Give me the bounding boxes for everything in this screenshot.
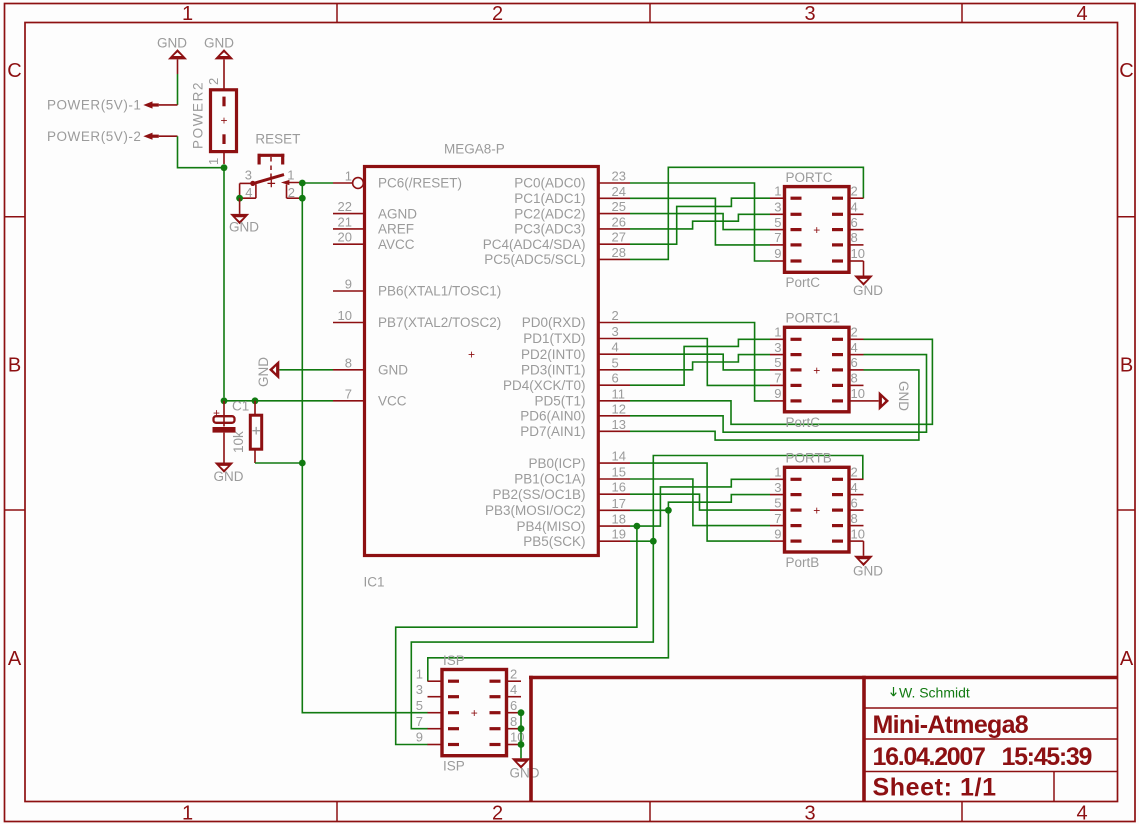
svg-text:10: 10 — [851, 526, 865, 541]
PORTC1 pin 5 — [791, 368, 802, 371]
IC pin 13 PD7(AIN1) — [598, 430, 630, 432]
svg-text:PD3(INT1): PD3(INT1) — [521, 363, 586, 378]
IC pin 6 PD4(XCK/T0) — [598, 384, 630, 386]
svg-text:7: 7 — [774, 371, 781, 386]
svg-text:GND: GND — [896, 381, 911, 411]
PORTB pin 7 — [791, 524, 802, 527]
svg-text:18: 18 — [612, 512, 626, 527]
svg-text:PortC: PortC — [786, 415, 821, 430]
PORTB pin 8 — [832, 524, 843, 527]
pin POWER(5V)-2 — [159, 135, 178, 137]
IC pin 24 PC1(ADC1) — [598, 197, 630, 199]
svg-text:PD0(RXD): PD0(RXD) — [522, 315, 586, 330]
wire POWER2 pin2 to ground — [223, 59, 225, 89]
svg-text:+: + — [813, 503, 820, 517]
wire VCC to IC pin7 — [224, 400, 333, 402]
title block row line 1 — [864, 707, 1118, 709]
svg-text:1: 1 — [416, 666, 423, 681]
switch actuator right leg — [281, 154, 284, 165]
switch plunger dash — [270, 174, 272, 179]
PORTC1 pin 4 — [832, 353, 843, 356]
frame tick right — [1118, 216, 1135, 218]
title block divider — [862, 676, 866, 802]
svg-text:2: 2 — [492, 803, 503, 825]
svg-text:16.04.2007 15:45:39: 16.04.2007 15:45:39 — [873, 743, 1092, 771]
frame tick left — [5, 509, 26, 511]
IC pin 22 AGND — [333, 213, 365, 215]
svg-text:Sheet: 1/1: Sheet: 1/1 — [873, 774, 997, 802]
wire PB2-PORTB5 — [630, 494, 770, 510]
IC pin 8 GND — [333, 369, 365, 371]
wire PB3 stub — [630, 509, 668, 511]
svg-text:IC1: IC1 — [364, 575, 385, 590]
switch contact arrow pin1 — [281, 180, 290, 185]
svg-text:B: B — [1120, 355, 1133, 377]
svg-text:8: 8 — [510, 714, 517, 729]
svg-text:GND: GND — [204, 36, 234, 51]
svg-text:4: 4 — [1076, 803, 1087, 825]
svg-text:3: 3 — [245, 167, 252, 182]
wire PC5-PORTC2 — [630, 167, 863, 259]
connector PORTC1 body — [785, 327, 850, 412]
svg-text:13: 13 — [612, 417, 626, 432]
svg-text:C: C — [1119, 60, 1133, 82]
frame tick right — [1118, 509, 1135, 511]
switch actuator bar — [258, 154, 285, 157]
svg-text:3: 3 — [774, 480, 781, 495]
switch pin 2 lead — [287, 197, 303, 199]
frame tick bottom — [961, 802, 963, 822]
svg-text:2: 2 — [510, 666, 517, 681]
PORTC1 pin 8 — [832, 384, 843, 387]
PORTC pin 4 — [832, 213, 843, 216]
svg-text:9: 9 — [345, 277, 352, 292]
wire PB0-PORTB9 — [630, 463, 770, 541]
IC pin 7 VCC — [333, 400, 365, 402]
frame tick top — [961, 4, 963, 23]
ground symbol above POWER2 — [214, 49, 233, 59]
svg-text:PB2(SS/OC1B): PB2(SS/OC1B) — [492, 487, 585, 502]
ISP pin 8 — [490, 727, 501, 730]
svg-text:3: 3 — [804, 3, 815, 25]
svg-text:6: 6 — [851, 495, 858, 510]
wire PD5-PORTC1.2 — [630, 339, 932, 424]
svg-text:5: 5 — [774, 495, 781, 510]
svg-text:17: 17 — [612, 496, 626, 511]
frame tick bottom — [336, 802, 338, 822]
switch lever — [253, 175, 284, 184]
svg-text:8: 8 — [851, 371, 858, 386]
svg-text:ISP: ISP — [443, 759, 465, 774]
svg-text:PD7(AIN1): PD7(AIN1) — [520, 424, 585, 439]
wire SCK-ISP7 — [411, 541, 653, 729]
IC pin 21 AREF — [333, 228, 365, 230]
ISP pin 4 — [490, 695, 501, 698]
svg-text:14: 14 — [612, 449, 626, 464]
svg-text:POWER2: POWER2 — [191, 81, 206, 149]
svg-text:PC1(ADC1): PC1(ADC1) — [514, 191, 585, 206]
svg-text:W. Schmidt: W. Schmidt — [899, 685, 970, 701]
IC pin 1 PC6(/RESET) — [333, 182, 352, 184]
svg-text:PB0(ICP): PB0(ICP) — [528, 456, 585, 471]
svg-text:PC4(ADC4/SDA): PC4(ADC4/SDA) — [483, 237, 586, 252]
IC pin 5 PD3(INT1) — [598, 369, 630, 371]
title block row line 3 — [864, 771, 1118, 773]
svg-text:26: 26 — [612, 214, 626, 229]
junction MISO — [634, 523, 641, 530]
switch pin 3-4 link — [239, 183, 241, 198]
svg-text:2: 2 — [206, 78, 221, 85]
svg-text:20: 20 — [338, 230, 352, 245]
PORTB pin 4 — [832, 493, 843, 496]
wire reset to IC pin1 — [302, 182, 333, 184]
junction ISP pin10 gnd — [518, 741, 525, 748]
wire PC0-PORTC9 — [630, 183, 770, 261]
IC pin 25 PC2(ADC2) — [598, 213, 630, 215]
wire PB5 stub — [630, 540, 653, 542]
IC pin 2 PD0(RXD) — [598, 322, 630, 324]
IC pin 20 AVCC — [333, 243, 365, 245]
wire PD1-PORTC1.7 — [630, 339, 770, 386]
svg-text:1: 1 — [345, 169, 352, 184]
svg-text:7: 7 — [416, 714, 423, 729]
PORTB pin 6 — [832, 509, 843, 512]
svg-text:4: 4 — [510, 682, 517, 697]
PORTB pin 2 — [832, 478, 843, 481]
svg-text:GND: GND — [229, 220, 259, 235]
svg-text:+: + — [813, 223, 820, 237]
svg-text:9: 9 — [774, 386, 781, 401]
svg-text:MEGA8-P: MEGA8-P — [444, 141, 505, 156]
svg-text:GND: GND — [853, 283, 883, 298]
switch plunger dash — [270, 166, 272, 171]
switch plunger stub — [270, 157, 272, 162]
svg-text:AREF: AREF — [378, 222, 414, 237]
pin POWER2 pin1 — [223, 152, 225, 164]
svg-text:GND: GND — [510, 766, 540, 781]
svg-text:GND: GND — [256, 357, 271, 387]
svg-text:PD5(T1): PD5(T1) — [534, 394, 585, 409]
PORTB pin 1 — [791, 478, 802, 481]
ground symbol at IC pin8 — [269, 360, 279, 379]
svg-text:7: 7 — [774, 511, 781, 526]
IC pin 10 PB7(XTAL2/TOSC2) — [333, 322, 365, 324]
wire PD3-PORTC1.3 — [630, 355, 770, 370]
IC pin 14 PB0(ICP) — [598, 462, 630, 464]
svg-text:7: 7 — [774, 230, 781, 245]
junction SCK — [650, 538, 657, 545]
svg-text:5: 5 — [774, 215, 781, 230]
ground symbol PORTC — [854, 276, 873, 286]
IC U1 MEGA8-P body — [365, 167, 599, 556]
svg-text:8: 8 — [851, 230, 858, 245]
svg-text:PB6(XTAL1/TOSC1): PB6(XTAL1/TOSC1) — [378, 284, 501, 299]
junction ISP pin6 gnd — [518, 709, 525, 716]
PORTC1 pin 2 — [832, 338, 843, 341]
junction ISP pin8 gnd — [518, 725, 525, 732]
svg-text:PD4(XCK/T0): PD4(XCK/T0) — [503, 378, 586, 393]
svg-text:PC5(ADC5/SCL): PC5(ADC5/SCL) — [484, 252, 585, 267]
IC pin 18 PB4(MISO) — [598, 525, 630, 527]
PORTC pin 6 — [832, 228, 843, 231]
ground symbol below C1 — [214, 463, 233, 473]
ground symbol top-left — [168, 49, 187, 59]
PORTC pin 7 — [791, 243, 802, 246]
svg-text:15: 15 — [612, 465, 626, 480]
PORTC1 pin 1 — [791, 338, 802, 341]
ISP pin 9 — [448, 743, 459, 746]
svg-text:10: 10 — [851, 386, 865, 401]
svg-text:PortC: PortC — [786, 275, 821, 290]
wire ISP gnd chain — [520, 713, 522, 759]
svg-text:PB3(MOSI/OC2): PB3(MOSI/OC2) — [485, 503, 586, 518]
connector ISP body — [442, 670, 507, 756]
svg-text:6: 6 — [851, 355, 858, 370]
svg-text:A: A — [1120, 648, 1134, 670]
svg-text:PC2(ADC2): PC2(ADC2) — [514, 206, 585, 221]
svg-text:10: 10 — [851, 246, 865, 261]
switch pin 4 riser — [255, 184, 257, 198]
svg-text:7: 7 — [345, 386, 352, 401]
svg-text:PD2(INT0): PD2(INT0) — [521, 347, 586, 362]
svg-text:AGND: AGND — [378, 206, 417, 221]
wire SCK-PORTB2 — [653, 456, 863, 542]
svg-text:16: 16 — [612, 480, 626, 495]
connector PORTC body — [785, 187, 850, 273]
frame tick top — [336, 4, 338, 23]
svg-text:PB7(XTAL2/TOSC2): PB7(XTAL2/TOSC2) — [378, 315, 501, 330]
PORTC pin 5 — [791, 228, 802, 231]
PORTC pin 9 — [791, 259, 802, 262]
author arrow glyph — [891, 687, 897, 696]
svg-text:21: 21 — [338, 214, 352, 229]
title block cell divider — [1053, 772, 1055, 802]
title block row line 2 — [864, 738, 1118, 740]
svg-text:A: A — [8, 648, 22, 670]
svg-text:1: 1 — [287, 167, 294, 182]
switch actuator left leg — [258, 154, 261, 165]
PORTC pin 1 — [791, 197, 802, 200]
switch origin cross — [268, 180, 276, 188]
frame tick top — [649, 4, 651, 23]
ISP pin 5 — [448, 711, 459, 714]
svg-text:RESET: RESET — [255, 132, 300, 147]
ISP pin 3 — [448, 695, 459, 698]
IC pin 28 PC5(ADC5/SCL) — [598, 258, 630, 260]
svg-text:2: 2 — [851, 325, 858, 340]
svg-text:PortB: PortB — [786, 555, 820, 570]
wire switch pin4 to ground — [239, 198, 241, 214]
svg-text:3: 3 — [416, 682, 423, 697]
svg-text:1: 1 — [182, 3, 193, 25]
wire PC2-PORTC5 — [630, 214, 770, 230]
IC pin 17 PB3(MOSI/OC2) — [598, 509, 630, 511]
ISP pin 1 — [448, 680, 459, 683]
svg-text:1: 1 — [182, 803, 193, 825]
IC pin 15 PB1(OC1A) — [598, 478, 630, 480]
PORTC pin 8 — [832, 243, 843, 246]
svg-text:6: 6 — [612, 371, 619, 386]
wire IC GND pin — [279, 369, 333, 371]
svg-text:12: 12 — [612, 401, 626, 416]
svg-text:+: + — [220, 113, 227, 127]
wire MOSI-PORTB3 — [668, 495, 770, 511]
connector PORTB body — [785, 467, 850, 552]
svg-text:3: 3 — [612, 324, 619, 339]
svg-text:4: 4 — [1076, 3, 1087, 25]
junction switch pin1 / reset net — [299, 180, 306, 187]
svg-text:PORTC1: PORTC1 — [786, 311, 841, 326]
wire PD4-PORTC1.1 — [630, 339, 770, 385]
PORTB pin 5 — [791, 509, 802, 512]
svg-text:PB4(MISO): PB4(MISO) — [516, 519, 585, 534]
svg-text:+: + — [471, 706, 478, 720]
svg-text:1: 1 — [206, 158, 221, 165]
svg-text:+: + — [813, 363, 820, 377]
svg-text:B: B — [8, 355, 21, 377]
C1 bottom lead — [223, 433, 225, 463]
IC pin 16 PB2(SS/OC1B) — [598, 493, 630, 495]
wire R1 to reset net — [255, 462, 302, 464]
wire MISO-ISP9 — [396, 526, 637, 744]
svg-text:3: 3 — [804, 803, 815, 825]
svg-text:28: 28 — [612, 245, 626, 260]
junction switch pin4 / gnd — [236, 195, 243, 202]
PORTC1 pin 9 — [791, 399, 802, 402]
svg-text:1: 1 — [774, 465, 781, 480]
svg-text:6: 6 — [510, 698, 517, 713]
junction R1 / reset net — [299, 460, 306, 467]
wire PORTC1 pin10 to ground — [864, 400, 879, 402]
ISP pin 6 — [490, 711, 501, 714]
svg-text:8: 8 — [851, 511, 858, 526]
svg-text:Mini-Atmega8: Mini-Atmega8 — [873, 711, 1029, 739]
svg-text:22: 22 — [338, 199, 352, 214]
IC pin 11 PD5(T1) — [598, 400, 630, 402]
R1 bottom lead — [254, 449, 256, 463]
svg-text:PB1(OC1A): PB1(OC1A) — [514, 472, 585, 487]
svg-text:PORTB: PORTB — [786, 451, 832, 466]
junction MOSI — [665, 507, 672, 514]
PORTC1 pin 10 — [832, 399, 843, 402]
junction VCC / R1 — [252, 397, 259, 404]
wire PORTC pin10 to ground — [863, 261, 865, 276]
PORTC pin 3 — [791, 213, 802, 216]
switch pin 1 lead — [284, 182, 302, 184]
ground symbol PORTC1 — [879, 391, 889, 410]
svg-text:2: 2 — [612, 308, 619, 323]
svg-text:2: 2 — [492, 3, 503, 25]
svg-text:1: 1 — [774, 325, 781, 340]
svg-text:3: 3 — [774, 340, 781, 355]
wire PB1-PORTB7 — [630, 479, 770, 526]
svg-text:5: 5 — [416, 698, 423, 713]
svg-text:PD6(AIN0): PD6(AIN0) — [520, 409, 585, 424]
svg-text:5: 5 — [774, 355, 781, 370]
svg-text:19: 19 — [612, 527, 626, 542]
svg-text:24: 24 — [612, 184, 626, 199]
PORTB pin 9 — [791, 539, 802, 542]
svg-text:PC6(/RESET): PC6(/RESET) — [378, 176, 462, 191]
junction VCC / C1 — [221, 397, 228, 404]
IC pin 3 PD1(TXD) — [598, 338, 630, 340]
svg-text:11: 11 — [612, 386, 626, 401]
wire PC4-PORTC1 — [630, 198, 770, 244]
ISP pin 7 — [448, 727, 459, 730]
svg-text:GND: GND — [378, 363, 408, 378]
PORTB pin 10 — [832, 539, 843, 542]
IC pin 26 PC3(ADC3) — [598, 228, 630, 230]
PORTC pin 2 — [832, 197, 843, 200]
svg-text:PORTC: PORTC — [786, 170, 833, 185]
svg-text:GND: GND — [157, 36, 187, 51]
svg-text:5: 5 — [612, 355, 619, 370]
svg-text:+: + — [468, 347, 475, 361]
svg-text:VCC: VCC — [378, 394, 407, 409]
wire MOSI-ISP1 — [428, 510, 669, 681]
svg-text:9: 9 — [774, 246, 781, 261]
svg-text:PC0(ADC0): PC0(ADC0) — [514, 176, 585, 191]
wire PD7-PORTC1.6 — [630, 370, 919, 440]
svg-text:PC3(ADC3): PC3(ADC3) — [514, 222, 585, 237]
switch contact pin3 — [250, 181, 255, 186]
svg-text:POWER(5V)-1: POWER(5V)-1 — [47, 98, 142, 113]
PORTC1 pin 6 — [832, 368, 843, 371]
svg-text:2: 2 — [851, 183, 858, 198]
PORTC1 pin 3 — [791, 353, 802, 356]
svg-text:9: 9 — [416, 730, 423, 745]
svg-text:4: 4 — [851, 200, 858, 215]
switch pin 3 lead — [240, 182, 253, 184]
svg-text:C1: C1 — [232, 399, 249, 414]
svg-text:PD1(TXD): PD1(TXD) — [523, 331, 585, 346]
svg-text:C: C — [7, 60, 21, 82]
wire POWER(5V)-2 to POWER2 pin1 — [178, 136, 225, 168]
title block top edge — [529, 676, 1118, 680]
wire POWER(5V)-1 to GND — [177, 74, 179, 105]
wire VCC net vertical — [223, 168, 225, 398]
IC pin 19 PB5(SCK) — [598, 540, 630, 542]
connector POWER2 — [211, 90, 237, 152]
R1 top lead — [254, 401, 256, 415]
wire PORTB pin10 to ground — [863, 541, 865, 556]
wire gnd stub — [177, 59, 179, 74]
wire MISO-PORTB1 — [630, 479, 770, 526]
svg-text:25: 25 — [612, 199, 626, 214]
IC pin 4 PD2(INT0) — [598, 353, 630, 355]
ground symbol PORTB — [854, 556, 873, 566]
svg-text:1: 1 — [774, 183, 781, 198]
svg-text:6: 6 — [851, 215, 858, 230]
svg-text:AVCC: AVCC — [378, 237, 415, 252]
svg-text:27: 27 — [612, 230, 626, 245]
R1 origin cross — [252, 427, 260, 435]
junction POWER2 pin1 / VCC net — [221, 164, 228, 171]
C1 top lead — [223, 401, 225, 427]
PORTC pin 10 — [832, 259, 843, 262]
ISP pin 2 — [490, 680, 501, 683]
svg-text:2: 2 — [851, 465, 858, 480]
wire PD2-PORTC1.5 — [630, 354, 770, 370]
wire PC3-PORTC3 — [630, 214, 770, 229]
wire PC1-PORTC7 — [630, 198, 770, 245]
IC pin 12 PD6(AIN0) — [598, 415, 630, 417]
switch pin 4 lead — [240, 197, 256, 199]
IC pin 27 PC4(ADC4/SDA) — [598, 243, 630, 245]
svg-text:GND: GND — [853, 564, 883, 579]
wire PD6-PORTC1.4 — [630, 355, 927, 433]
svg-text:PB5(SCK): PB5(SCK) — [523, 534, 585, 549]
